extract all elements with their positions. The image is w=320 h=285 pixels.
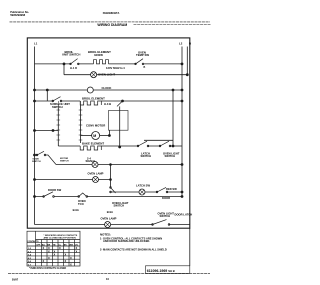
svg-text:CONTACTS: CONTACTS — [27, 240, 39, 243]
svg-text:611096-1969 SH B: 611096-1969 SH B — [147, 269, 175, 273]
riser row1 to row2 — [63, 64, 65, 75]
svg-text:WM: WM — [69, 244, 73, 246]
resistor bake element — [80, 146, 101, 150]
wire row5 upper stub — [144, 139, 173, 141]
switch on riser — [112, 201, 129, 208]
svg-text:SWITCH: SWITCH — [165, 154, 176, 158]
rail L2 — [181, 47, 183, 197]
wire row7 — [35, 179, 111, 181]
svg-text:SIGNAL: SIGNAL — [86, 159, 97, 163]
svg-text:M: M — [93, 134, 96, 138]
svg-text:X: X — [70, 256, 72, 260]
svg-text:FEB398CBTA: FEB398CBTA — [103, 11, 120, 15]
header publication text — [10, 10, 119, 17]
resistor broil element 2 — [80, 101, 101, 105]
svg-text:NOTES:: NOTES: — [100, 233, 111, 237]
lamp indicator 1 — [92, 162, 98, 168]
svg-text:TEMP SW: TEMP SW — [136, 53, 149, 57]
lamp clock — [87, 87, 93, 93]
wire row10 bottom — [35, 224, 190, 226]
svg-text:120V 60HZ H-4: 120V 60HZ H-4 — [106, 66, 125, 70]
switch S1 broil — [71, 59, 78, 64]
svg-text:X: X — [54, 253, 56, 257]
switch S9 bottom — [153, 220, 167, 225]
rail N — [186, 47, 188, 75]
svg-text:L1: L1 — [34, 41, 38, 45]
rail L1 — [34, 47, 36, 225]
svg-text:L2: L2 — [179, 41, 183, 45]
svg-text:X: X — [43, 246, 45, 250]
wire row9 — [35, 196, 183, 198]
riser row3 to row4 — [46, 90, 48, 101]
svg-text:B-9A: B-9A — [107, 210, 113, 214]
svg-text:SWITCH: SWITCH — [141, 154, 152, 158]
notes — [100, 233, 167, 252]
lamp indicator 2 — [93, 177, 99, 183]
svg-text:DOOR SW: DOOR SW — [48, 188, 62, 192]
svg-text:UNIT SWITCH: UNIT SWITCH — [62, 53, 80, 57]
lamp oven lamp bottom — [105, 222, 111, 228]
svg-text:N: N — [189, 41, 191, 45]
switch S7 — [157, 187, 166, 192]
motor conv — [81, 135, 92, 137]
junction row4-L2 — [181, 100, 183, 102]
svg-text:X: X — [43, 259, 45, 263]
wire row4 — [35, 100, 183, 102]
bottom perforation rule — [8, 272, 210, 274]
switch S3 surface — [53, 97, 61, 101]
svg-text:X: X — [48, 256, 50, 260]
control rail A with pins — [57, 106, 59, 147]
svg-text:DOOR LATCH: DOOR LATCH — [175, 213, 193, 217]
svg-text:RED SW: RED SW — [166, 187, 177, 191]
svg-text:X: X — [76, 249, 78, 253]
svg-text:X: X — [70, 263, 72, 267]
riser through box to row5 — [119, 106, 121, 147]
control rail B with pins — [80, 106, 82, 144]
wire row6 — [56, 164, 182, 166]
svg-text:H-3 B: H-3 B — [104, 102, 111, 106]
svg-text:SWITCH: SWITCH — [32, 161, 41, 163]
svg-text:ARE CLOSED EACH POSITION: ARE CLOSED EACH POSITION — [44, 237, 77, 240]
lamp oven light 1 — [91, 72, 97, 78]
svg-text:TCO: TCO — [78, 202, 84, 206]
switch S4 selector — [35, 155, 57, 165]
svg-text:OVEN LIGHT: OVEN LIGHT — [98, 73, 115, 77]
schematic frame — [27, 38, 190, 228]
node L2 — [179, 41, 183, 45]
lamp latch light — [139, 189, 145, 195]
resistor broil element — [94, 60, 109, 64]
svg-text:WIRING DIAGRAM: WIRING DIAGRAM — [97, 23, 127, 27]
header rule dashed — [10, 21, 211, 23]
wire row2 — [64, 74, 187, 76]
title block — [146, 266, 190, 274]
switch S2 oven temp — [136, 59, 144, 64]
svg-text:SWITCH: SWITCH — [160, 214, 171, 218]
riser row7 to row8 — [110, 165, 112, 188]
wiring diagram title — [95, 22, 135, 27]
svg-text:2- MAIN CONTACTS ARE NOT SHOWN: 2- MAIN CONTACTS ARE NOT SHOWN IN ALL SH… — [100, 247, 167, 251]
svg-text:B-9A: B-9A — [73, 208, 79, 212]
wire L1 to control stub — [35, 130, 59, 132]
svg-text:AND DOOR SHOWN ARE UNLOCKED.: AND DOOR SHOWN ARE UNLOCKED. — [103, 239, 150, 243]
svg-text:SWITCH: SWITCH — [114, 203, 125, 207]
thermal fuse — [79, 193, 87, 197]
switch S8 door — [44, 192, 53, 197]
svg-text:SWITCH: SWITCH — [60, 160, 69, 162]
junction row2-N — [186, 74, 188, 76]
node L1 — [34, 41, 38, 45]
switch S5 latch — [138, 141, 147, 146]
svg-text:CONV MOTOR: CONV MOTOR — [86, 124, 105, 128]
svg-text:OVEN LAMP: OVEN LAMP — [88, 171, 104, 175]
svg-text:BROIL ELEMENT: BROIL ELEMENT — [82, 96, 105, 100]
footer page number — [12, 277, 110, 281]
contacts table — [27, 231, 80, 266]
svg-text:BAKE ELEMENT: BAKE ELEMENT — [82, 142, 104, 146]
svg-text:SWITCH: SWITCH — [52, 105, 63, 109]
svg-text:5995299968: 5995299968 — [10, 13, 25, 17]
svg-text:CLOCK: CLOCK — [102, 86, 112, 90]
svg-text:X: X — [65, 253, 67, 257]
switch S6 thermo — [160, 141, 169, 146]
svg-text:* INDICATES CONTACTS CLOSED: * INDICATES CONTACTS CLOSED — [29, 267, 67, 270]
svg-text:X: X — [65, 259, 67, 263]
svg-text:X: X — [48, 249, 50, 253]
junction row1-L2 — [181, 63, 183, 65]
svg-text:OVEN LAMP: OVEN LAMP — [101, 216, 117, 220]
svg-text:H-1 D: H-1 D — [70, 66, 77, 70]
wire row5 — [58, 145, 182, 147]
frame right extension to title block — [189, 228, 191, 266]
svg-text:* INDICATES WHICH CONTACTS: * INDICATES WHICH CONTACTS — [44, 234, 78, 237]
rail stubs to row4 — [58, 101, 80, 106]
svg-text:50/97: 50/97 — [12, 278, 19, 281]
svg-text:X: X — [59, 246, 61, 250]
svg-text:LATCH SW: LATCH SW — [136, 183, 150, 187]
svg-text:B: B — [144, 66, 146, 69]
vertical L2 tap — [172, 90, 174, 146]
switch blade row4 to box — [117, 101, 123, 106]
wire row1 — [35, 63, 183, 65]
wire row3 — [35, 89, 183, 91]
title underline dashed — [134, 24, 212, 26]
relay box DLB — [109, 111, 129, 131]
node N — [189, 41, 191, 45]
wire row8 — [111, 191, 183, 193]
svg-text:10: 10 — [106, 277, 109, 281]
svg-text:3400W: 3400W — [94, 53, 103, 57]
